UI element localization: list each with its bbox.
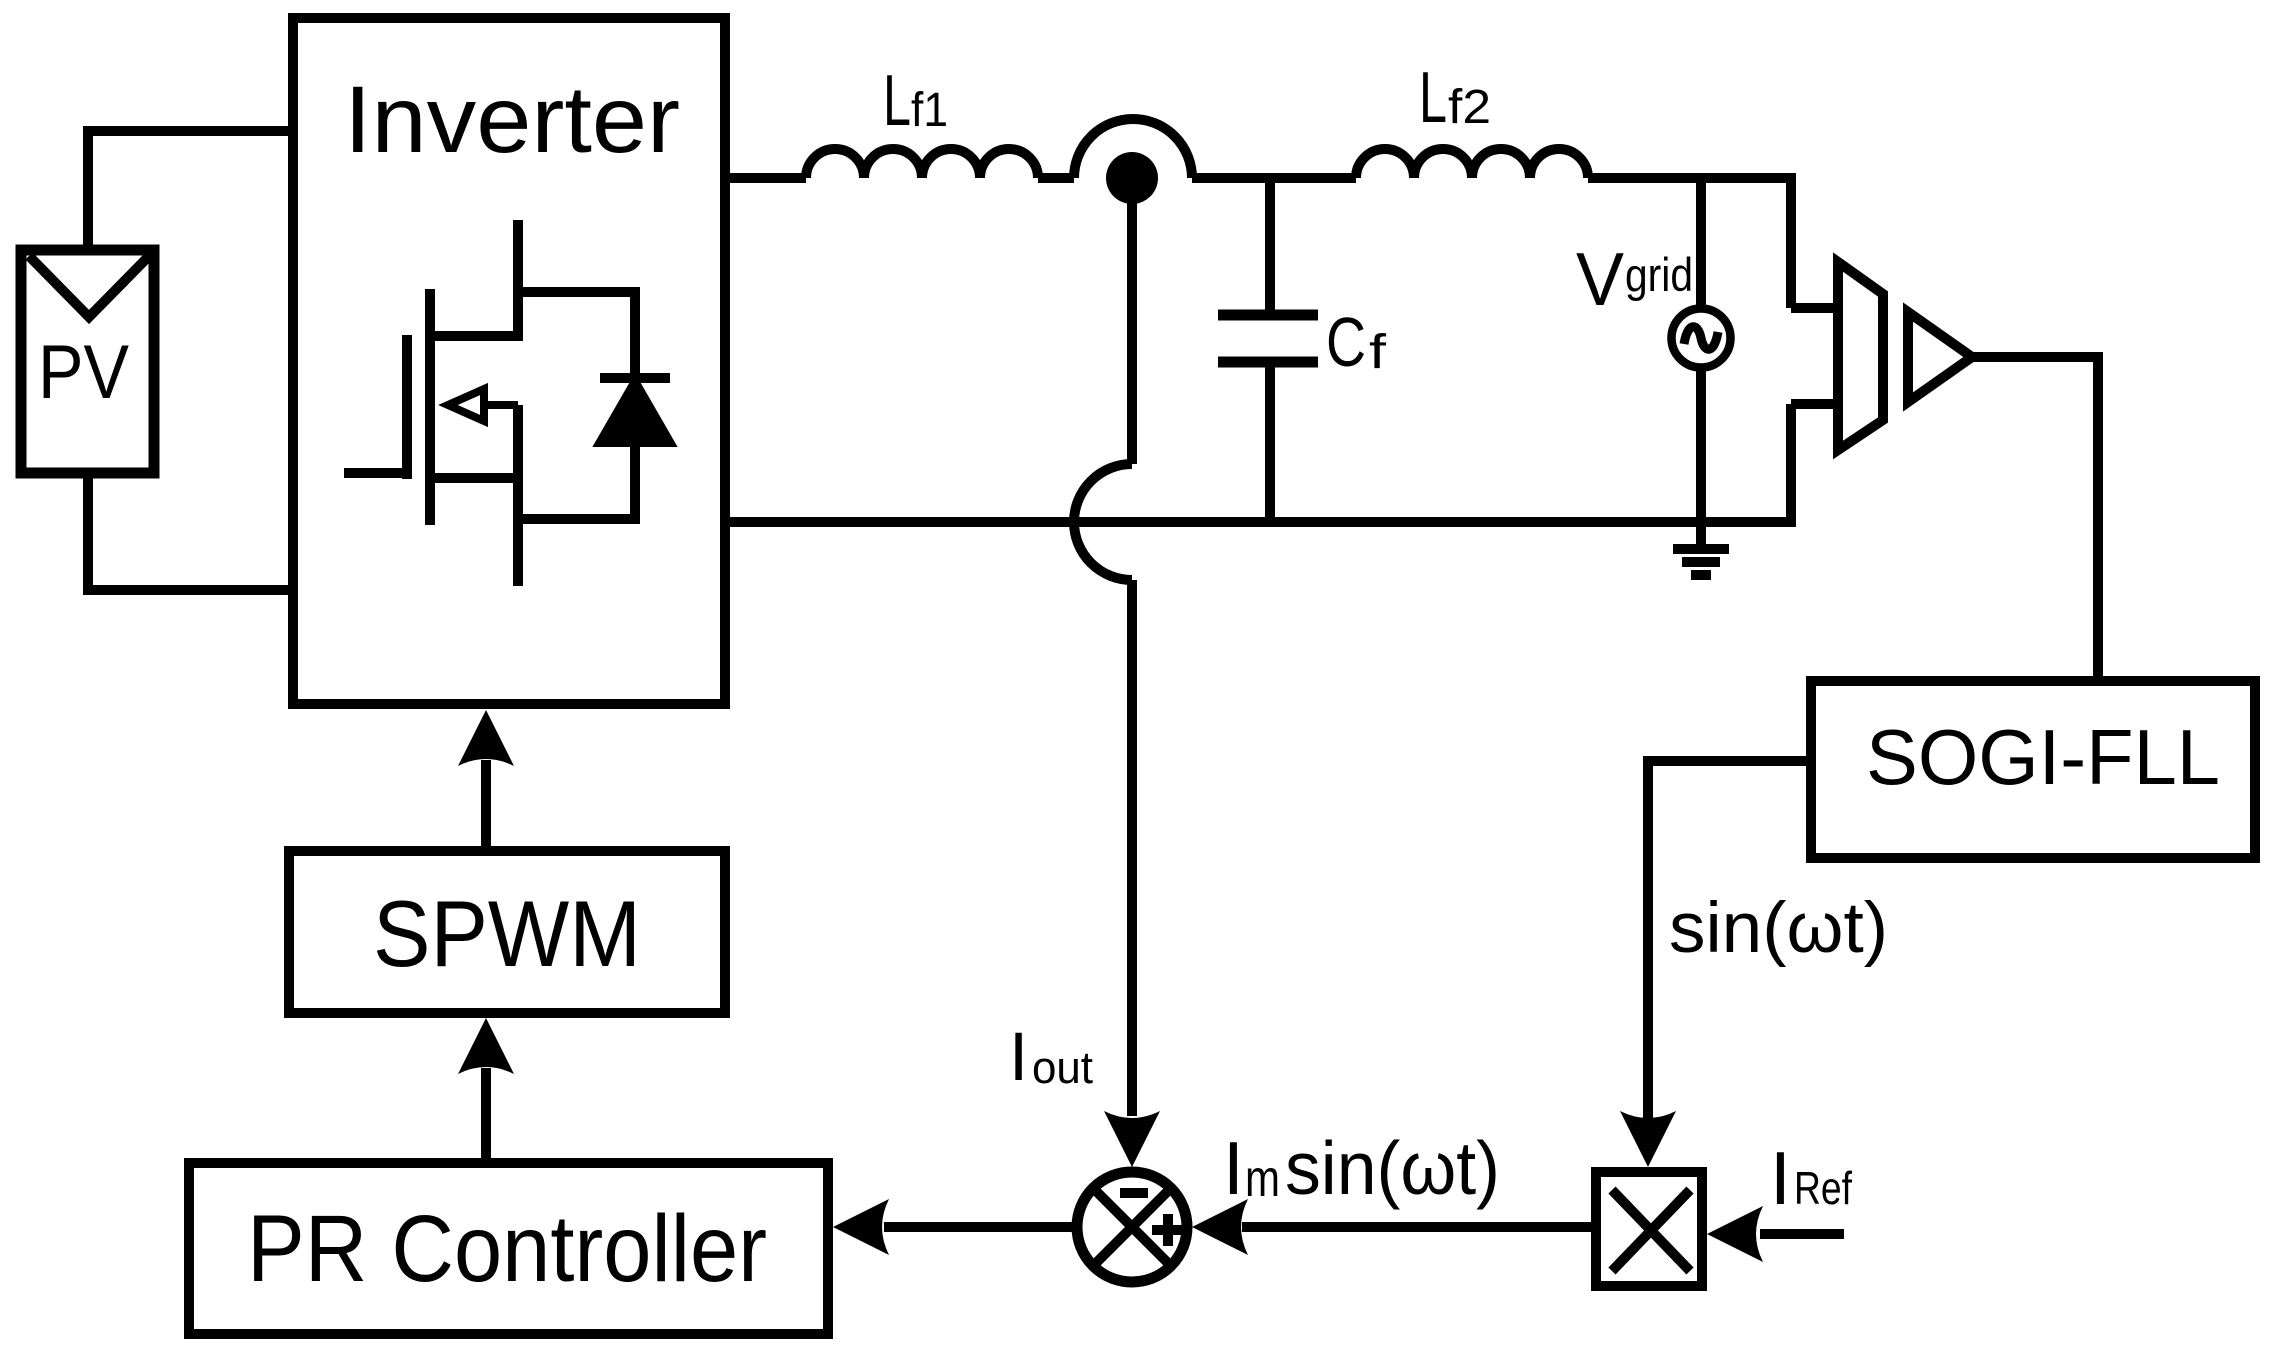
transistor Q1 drain lead (513, 220, 523, 341)
arrow into summing junction top (1104, 1111, 1160, 1167)
wire SOGI-FLL to multiplier (1648, 761, 1811, 1119)
svg-text:f: f (1369, 326, 1387, 379)
ground bar 2 (1682, 557, 1720, 567)
node A junction dot (1106, 152, 1158, 204)
wire PR Controller to SPWM (481, 1068, 491, 1163)
summing junction S1 cross (1093, 1188, 1171, 1266)
Iout wire hop over bottom rail (1074, 464, 1132, 580)
transistor Q1 gate lead (344, 468, 407, 478)
diode D1 cathode bar (600, 373, 670, 383)
transistor Q1 body arrow (448, 389, 518, 421)
wire SPWM to inverter (481, 760, 491, 851)
wire PV bottom to inverter (88, 478, 293, 590)
svg-text:sin(ωt): sin(ωt) (1285, 1126, 1500, 1210)
sensor T1 trapezoid (1838, 262, 1883, 450)
ground bar 1 (1673, 544, 1729, 554)
source Vgrid circle (1672, 309, 1731, 368)
diode D1 branch top wire (518, 292, 635, 378)
svg-text:C: C (1326, 303, 1366, 381)
capacitor Cf top plate (1218, 310, 1318, 321)
SOGI-FLL block (1811, 681, 2255, 858)
transistor Q1 gate bar (402, 335, 412, 479)
summing junction plus sign (1152, 1214, 1184, 1246)
inverter block U1 (293, 18, 725, 704)
wire Lf1 to node hop (1038, 173, 1074, 183)
source Vgrid top lead (1696, 178, 1706, 306)
transistor Q1 source stub (430, 473, 518, 483)
svg-text:SOGI-FLL: SOGI-FLL (1866, 713, 2220, 801)
transistor Q1 source lead (513, 405, 523, 586)
multiplier M1 cross (1612, 1190, 1690, 1271)
summing junction minus sign (1120, 1188, 1148, 1198)
SPWM block (289, 851, 725, 1013)
buffer amplifier A1 (1908, 312, 1972, 402)
svg-text:grid: grid (1625, 248, 1693, 301)
wire inverter to Lf1 (725, 173, 806, 183)
summing junction S1 circle (1077, 1172, 1187, 1282)
svg-text:L: L (883, 61, 911, 141)
sensor T1 bottom stub (1791, 399, 1838, 409)
inductor Lf2 (1356, 149, 1588, 178)
wire PV top to inverter (88, 131, 293, 245)
arrow into multiplier right (1707, 1206, 1763, 1262)
arrow into multiplier top (1620, 1111, 1676, 1167)
arrow into inverter (458, 710, 514, 766)
source Vgrid bottom lead (1696, 370, 1706, 549)
wire node to Cf tap (1192, 173, 1356, 183)
wire buffer output to SOGI-FLL (1972, 357, 2098, 681)
sensor T1 top stub (1791, 303, 1838, 313)
arrow into PR Controller (833, 1199, 889, 1255)
wire multiplier to summing junction (1242, 1222, 1591, 1232)
svg-text:L: L (1419, 58, 1447, 138)
wire Lf2 to right corner (1588, 178, 1791, 308)
wire hop over node A (1074, 119, 1192, 178)
svg-text:I: I (1770, 1136, 1791, 1220)
svg-text:f1: f1 (911, 84, 948, 137)
diode D1 branch bottom wire (518, 442, 635, 519)
arrow into summing junction right (1192, 1199, 1248, 1255)
transistor Q1 channel bar (425, 289, 435, 525)
svg-text:SPWM: SPWM (373, 881, 641, 986)
ground bar 3 (1691, 570, 1711, 580)
svg-text:f2: f2 (1448, 81, 1491, 134)
IRef input wire (1760, 1229, 1844, 1239)
source Vgrid sine (1684, 327, 1718, 350)
capacitor Cf bottom lead (1265, 362, 1275, 522)
capacitor Cf bottom plate (1218, 357, 1318, 368)
svg-text:PR Controller: PR Controller (247, 1196, 767, 1302)
PV module PV (21, 250, 154, 473)
inductor Lf1 (806, 149, 1038, 178)
svg-text:V: V (1576, 237, 1624, 321)
svg-text:I: I (1223, 1126, 1244, 1210)
svg-text:Ref: Ref (1794, 1162, 1852, 1214)
Iout wire to summing junction (1127, 580, 1137, 1116)
svg-text:Inverter: Inverter (344, 67, 680, 173)
svg-text:I: I (1009, 1018, 1028, 1095)
arrow into SPWM (458, 1018, 514, 1074)
Iout sense wire from node (1127, 200, 1137, 464)
bottom rail (725, 404, 1791, 522)
svg-text:m: m (1245, 1150, 1280, 1208)
svg-text:sin(ωt): sin(ωt) (1669, 889, 1888, 968)
PR Controller block (189, 1163, 828, 1334)
capacitor Cf top lead (1265, 178, 1275, 315)
diode D1 triangle (601, 383, 669, 442)
wire summing junction to PR Controller (884, 1222, 1077, 1232)
svg-text:out: out (1032, 1042, 1093, 1093)
multiplier M1 box (1596, 1172, 1702, 1286)
transistor Q1 drain stub (430, 331, 518, 341)
svg-text:PV: PV (38, 330, 129, 415)
